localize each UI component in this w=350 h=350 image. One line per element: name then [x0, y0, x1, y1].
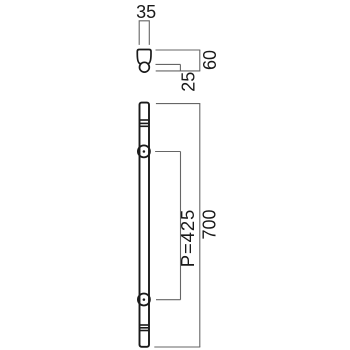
- dimension line P=425: [180, 152, 182, 300]
- handle bar (front view): [140, 103, 150, 347]
- center dot upper: [143, 150, 146, 153]
- leader lower circle: [156, 299, 181, 301]
- svg-text:700: 700: [200, 209, 220, 239]
- mount circle lower: [138, 294, 150, 306]
- groove lines top: [140, 119, 148, 121]
- door face line: [156, 70, 201, 72]
- center dot lower: [143, 298, 146, 301]
- dimension line 60: [199, 50, 201, 71]
- svg-text:60: 60: [200, 50, 220, 70]
- groove lines bottom: [140, 324, 148, 326]
- dimension bracket 35: [139, 21, 149, 45]
- svg-text:35: 35: [136, 2, 156, 22]
- dimension line 700: [199, 104, 201, 347]
- extension line circle top (25 ref): [156, 63, 181, 65]
- mount circle upper: [138, 145, 150, 157]
- extension line bar top: [156, 103, 200, 105]
- svg-text:P=425: P=425: [177, 209, 198, 268]
- cap (standoff base, side view): [137, 50, 151, 64]
- standoff bar cross-section circle: [140, 62, 150, 72]
- dimension line 25: [179, 64, 181, 71]
- extension line bar bottom: [154, 346, 200, 348]
- svg-text:25: 25: [179, 72, 199, 92]
- extension line cap top: [156, 49, 201, 51]
- leader upper circle: [155, 151, 180, 153]
